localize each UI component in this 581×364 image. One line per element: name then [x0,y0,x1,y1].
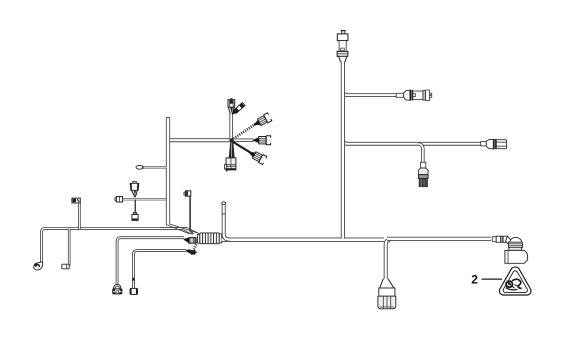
wire: branch up to clip connector [78,203,81,229]
wire: fan-out feeder from riser [170,138,232,142]
connector: small box with down lead (right of riser) [184,191,194,235]
wire: drop to big module connector [386,240,391,279]
connector C6: round sensor plug below fan-out [224,141,236,171]
wire: left vertical riser [166,118,170,225]
connector C2: small diagonal pen plug [230,102,245,116]
connector: bottom plug of cross assembly [132,212,138,220]
connector: open box terminal (lower left #2) [62,264,69,269]
connector: spark-plug style SP [418,162,428,186]
connector: right-angle plug RA at trunk end [492,236,527,263]
connector C5: lower-right fork plug [246,148,267,165]
connector: big module plug BB [378,279,396,309]
symbol: warning triangle [499,267,531,295]
splice: dark band on W5 [132,278,134,281]
wire: blunt stub branch with loop end [136,165,167,169]
wire: riser merge diagonals [166,224,197,234]
wire: main vertical riser V2 [341,62,345,239]
wire: branch B2 to lambda plug [343,139,481,144]
wire: lower-left lead W4 [117,238,184,284]
wire: branch B1 to mated pair [343,91,397,96]
wire: main trunk (loom to junction) [222,237,384,241]
wire: left harness trunk [42,228,161,262]
leader line for label 2 [482,278,503,280]
connector C4: middle-right fork plug [252,136,271,145]
connector C1: top plug of fan-out [228,98,235,114]
wire: branch down to open-box terminal [68,229,71,266]
node: fan-out junction [230,138,234,142]
connector: top sensor plug TC [337,30,348,62]
wire: black lead to lower-right plug [233,142,252,154]
wire: drop to spark-plug connector [418,144,423,163]
connector: wedge terminal AK2 [186,249,197,254]
connector: left cap of cross assembly [115,197,123,203]
connector: top plug of cross assembly [130,181,139,197]
wire: injector lead up [229,114,233,141]
connector: lambda plug OX at end of B2 [481,139,507,149]
connector C3: upper-right fork plug [251,113,272,130]
wire: twisted drop from loom to AK2 [193,240,198,252]
connector: small clip on top of left branch [72,198,80,203]
wire: breather post [222,202,230,240]
wire: cross-assembly feed to left vertical [123,198,167,200]
connector: square terminal K5 (bottom) [130,288,138,294]
wire: twisted lead to upper-right plug [234,124,257,139]
wire: gray lead to middle-right plug [234,138,254,141]
wire: trunk right segment [387,237,491,241]
wire: lower-left lead W5 [134,251,187,289]
connector: ring terminal hook (far lower left) [34,262,43,270]
connector: wedge terminal AK1 at loom [184,238,196,244]
loom: corrugated sleeve [198,233,222,244]
wire: flare into loom (top edge) [160,227,199,234]
svg-text:2: 2 [471,273,478,287]
connector: bell terminal K4 (bottom) [113,284,122,294]
connector: mated pair CP on branch B1 [396,90,432,101]
wire: cross assembly down lead [134,200,137,213]
